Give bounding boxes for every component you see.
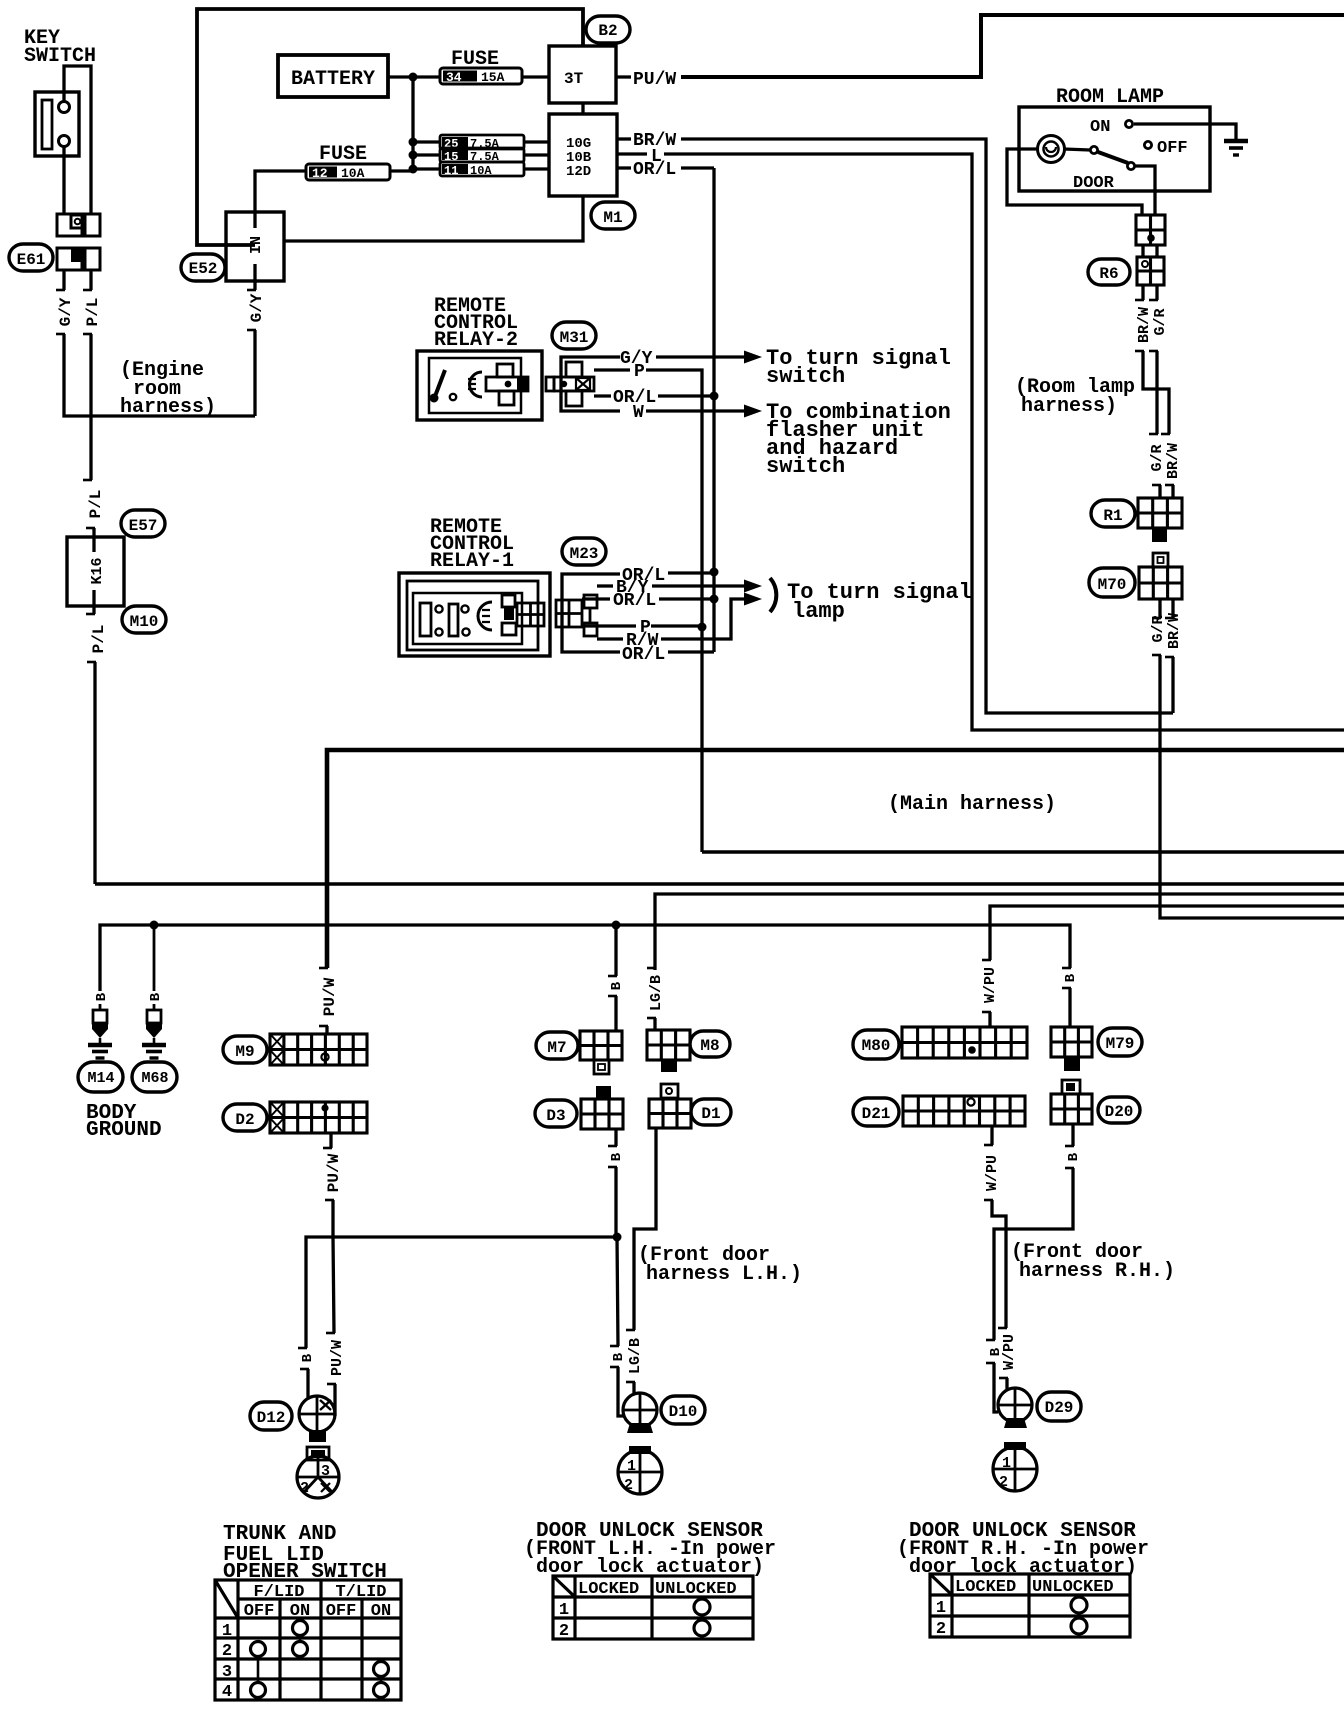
svg-text:1: 1 (1002, 1455, 1011, 1472)
svg-text:G/Y: G/Y (248, 293, 266, 322)
svg-text:P/L: P/L (84, 298, 102, 327)
wire PU/W into D12 (333, 1384, 336, 1416)
svg-text:R6: R6 (1099, 265, 1118, 283)
trunk and fuel lid opener switch symbol (297, 1456, 339, 1498)
svg-text:15A: 15A (481, 70, 505, 85)
wire key switch bottom to connector (62, 147, 65, 214)
wire bulb left loop (1007, 149, 1142, 215)
svg-text:harness R.H.): harness R.H.) (1019, 1260, 1175, 1283)
svg-text:D21: D21 (862, 1105, 891, 1123)
svg-text:2: 2 (999, 1474, 1008, 1491)
relay-1 contact points (435, 605, 442, 612)
key switch body (35, 92, 79, 156)
wire LG/B below D1 (634, 1128, 656, 1330)
svg-text:2: 2 (624, 1477, 633, 1494)
connector grid R1 connector (1138, 498, 1182, 528)
wire PU/W to trunk connector (333, 1200, 334, 1333)
wire BR/W into R1 (1171, 485, 1174, 498)
connector grid D2 connector (270, 1102, 367, 1133)
wire P wire down (646, 370, 702, 852)
wire G/R into R1 (1158, 485, 1161, 498)
wire fuse row 2 left (413, 153, 440, 156)
wire 3T to fuse block (581, 103, 584, 114)
wire tick (608, 1145, 617, 1148)
relay-1 body (399, 573, 550, 656)
svg-text:M7: M7 (547, 1039, 566, 1057)
wire tick (56, 333, 65, 336)
junction OR/L junction 1 (710, 568, 719, 577)
svg-text:P/L: P/L (87, 490, 105, 519)
connector grid D1 connector (649, 1099, 691, 1128)
svg-text:B: B (1063, 973, 1079, 982)
wire tick (982, 959, 991, 962)
connector label M10 (122, 606, 166, 633)
junction ground junction M68 (150, 921, 159, 930)
door unlock sensor LH contact row1 (694, 1599, 710, 1615)
wire ON to ground (1134, 124, 1236, 140)
wire B/Y to arrow (652, 584, 744, 587)
svg-text:RELAY-1: RELAY-1 (430, 550, 514, 573)
wire G/Y down to engine-room joint (64, 334, 255, 416)
wire key switch top loop (64, 66, 91, 214)
svg-text:OR/L: OR/L (633, 160, 676, 180)
wire connector to R6 right (1155, 245, 1158, 257)
wire L tick (617, 152, 647, 155)
switch pivot (1090, 146, 1097, 153)
connector pair E61 (57, 248, 100, 270)
wire tick (86, 527, 95, 530)
OFF contact (1144, 141, 1151, 148)
round connector D10 (623, 1393, 657, 1427)
svg-text:BATTERY: BATTERY (291, 68, 375, 91)
D2 hatched cell (270, 1102, 284, 1133)
connector label E52 (181, 254, 225, 281)
connector label M8 (690, 1031, 730, 1057)
svg-text:UNLOCKED: UNLOCKED (1032, 1578, 1114, 1597)
junction P junction (698, 623, 707, 632)
svg-text:1: 1 (627, 1458, 636, 1475)
wire main harness PU/W bus (327, 750, 1344, 968)
wire tick (298, 1347, 307, 1350)
svg-text:B: B (94, 992, 110, 1001)
wire B into D29 (994, 1363, 998, 1412)
wire W/PU to M80 (988, 1012, 991, 1027)
connector grid M80 connector (902, 1027, 1027, 1058)
wire tick (626, 1329, 635, 1332)
svg-text:T/LID: T/LID (335, 1583, 386, 1602)
wire link rows2-4 (257, 1656, 260, 1683)
bulb filament (1046, 147, 1056, 152)
wire B/Y from M23 (597, 584, 613, 587)
connector label M80 (853, 1030, 899, 1059)
wire fuse block to IN (284, 196, 583, 241)
door lock actuator RH cap (1004, 1442, 1026, 1450)
wire OR/L row3 from M23 (582, 597, 610, 600)
door lock actuator LH cap (629, 1446, 651, 1454)
wire IN top stub (253, 212, 256, 228)
svg-text:M79: M79 (1106, 1035, 1135, 1053)
svg-text:BR/W: BR/W (1165, 443, 1182, 479)
wire G/R below M70 (1158, 599, 1161, 618)
svg-text:R1: R1 (1103, 507, 1122, 525)
svg-text:DOOR: DOOR (1073, 174, 1115, 193)
wire W/PU into D29 (1005, 1378, 1008, 1389)
wire B down to junction (614, 1167, 617, 1237)
junction battery junction (409, 73, 418, 82)
switch lever (1098, 152, 1128, 163)
connector grid D21 connector (903, 1096, 1025, 1126)
connector pair at key switch (57, 214, 100, 236)
relay-2 body (417, 351, 542, 420)
wire tick (608, 995, 617, 998)
wire tick (647, 967, 656, 970)
connector label M9 (223, 1036, 267, 1063)
wire fuse12 to junction (390, 169, 413, 172)
door lock actuator RH motor (993, 1447, 1037, 1491)
wire P/L to main harness (93, 662, 96, 884)
svg-text:M10: M10 (130, 613, 159, 631)
wire tick (325, 1199, 334, 1202)
wire tick (1062, 967, 1071, 970)
connector grid M8 connector (647, 1030, 690, 1060)
svg-text:M70: M70 (1098, 576, 1127, 594)
svg-text:10A: 10A (341, 166, 365, 181)
wire tick (1161, 433, 1170, 436)
junction fuse junction 2 (409, 151, 418, 160)
wire PU/W into M9 (325, 1026, 328, 1034)
wire G/R below R6 a (1155, 285, 1158, 300)
wire fuse row 3 left (413, 167, 440, 170)
svg-text:D1: D1 (701, 1105, 720, 1123)
wire tick (647, 1017, 656, 1020)
wire tick (327, 1383, 336, 1386)
svg-text:F/LID: F/LID (253, 1583, 304, 1602)
svg-text:D20: D20 (1105, 1103, 1134, 1121)
connector label D10 (661, 1396, 705, 1424)
fuse 12 10A (306, 164, 390, 180)
wire K16 bottom stub (92, 590, 95, 614)
svg-text:B: B (609, 1152, 625, 1161)
wire G/R long down (1160, 655, 1344, 918)
ground symbol (1224, 141, 1248, 155)
connector grid D20 connector (1051, 1094, 1092, 1124)
svg-text:34: 34 (446, 70, 462, 85)
svg-text:1: 1 (936, 1599, 946, 1618)
wire tick (984, 1144, 993, 1147)
wire B to D10 (617, 1237, 618, 1346)
arrow to turn signal lamp 1 (744, 580, 762, 593)
svg-text:M68: M68 (141, 1070, 168, 1087)
wire fuse feed vertical (411, 77, 414, 170)
wire tick (1165, 656, 1174, 659)
relay-2 terminal cross (497, 364, 513, 377)
svg-text:M80: M80 (862, 1037, 891, 1055)
svg-text:10A: 10A (470, 164, 492, 178)
connector grid relay-1 right (517, 603, 544, 626)
wire tick (326, 1332, 335, 1335)
wire P from M31 (594, 368, 630, 371)
wire B to M7 b (614, 996, 617, 1031)
svg-text:LG/B: LG/B (627, 1338, 644, 1374)
svg-text:OFF: OFF (1157, 139, 1188, 158)
svg-text:switch: switch (766, 364, 845, 389)
svg-text:B: B (148, 992, 164, 1001)
wire BR/W tick (617, 137, 631, 140)
connector grid M70 connector (1139, 567, 1182, 599)
wire tick (1165, 617, 1174, 620)
svg-text:B: B (988, 1347, 1004, 1356)
wire battery to fuse (388, 75, 440, 78)
wire tick (1149, 433, 1158, 436)
wire M68 drop (153, 925, 156, 991)
connector label D1 (691, 1099, 731, 1125)
svg-text:B2: B2 (598, 22, 617, 40)
wire fuse row 1 left (413, 140, 440, 143)
wire M23 bracket (562, 574, 620, 652)
svg-text:IN: IN (248, 236, 265, 254)
svg-text:ON: ON (290, 1602, 310, 1621)
M31 cross (566, 362, 582, 377)
switch contact row4 ON-T (374, 1683, 389, 1698)
wire OR/L row3 join (659, 597, 714, 600)
switch contact row4 OFF-F (251, 1683, 266, 1698)
relay-2 coil (469, 372, 482, 397)
svg-text:G/R: G/R (1150, 615, 1167, 642)
wire top bus (197, 9, 583, 245)
ignition switch IN box (226, 212, 284, 281)
connector label D21 (853, 1098, 899, 1126)
wire tick (984, 1199, 993, 1202)
wire P/L down (89, 334, 92, 480)
connector grid R6 connector (1137, 257, 1164, 285)
wire G/Y to arrow (656, 355, 744, 358)
wire connector to R6 left (1141, 245, 1144, 257)
svg-text:OFF: OFF (326, 1602, 357, 1621)
svg-text:11: 11 (444, 164, 458, 178)
svg-text:3T: 3T (564, 70, 584, 88)
wire B to M7 (614, 925, 617, 976)
wire P/L from E61 (89, 270, 92, 290)
svg-text:M23: M23 (570, 545, 599, 563)
connector label D3 (535, 1100, 577, 1127)
battery (278, 55, 388, 97)
D12 X mark (320, 1400, 331, 1410)
door unlock sensor RH contact row1 (1071, 1597, 1087, 1613)
D20 lock tab (1062, 1080, 1080, 1094)
wire tick (986, 1362, 995, 1365)
wire IN bottom stub (253, 264, 256, 290)
wire M68 wire (153, 1004, 156, 1010)
svg-text:PU/W: PU/W (633, 70, 676, 90)
D1 lock tab (661, 1084, 678, 1098)
svg-text:harness): harness) (120, 396, 216, 419)
D3 lock tab (596, 1086, 611, 1099)
wire G/Y from IN down (253, 330, 256, 416)
wire G/R straight (1155, 351, 1158, 434)
room lamp box (1019, 107, 1210, 191)
round connector D29 (998, 1388, 1032, 1422)
wire B to M79 (1068, 988, 1071, 1027)
wire tick (1152, 484, 1161, 487)
svg-text:RELAY-2: RELAY-2 (434, 329, 518, 352)
svg-text:2: 2 (559, 1622, 569, 1641)
wire tick (83, 333, 92, 336)
connector label M1 (591, 202, 635, 229)
fuse row 15 7.5A (440, 148, 524, 162)
wire tick (982, 1011, 991, 1014)
wire M14 wire (99, 1004, 102, 1010)
wire OR/L join (658, 394, 714, 397)
wire tick (1135, 299, 1144, 302)
fuse block box M1 (549, 114, 617, 196)
fuse 34 15A (440, 68, 522, 84)
wire B jog to D29 (994, 1168, 1073, 1340)
ON contact (1125, 120, 1132, 127)
D12 base (309, 1430, 326, 1442)
junction OR/L junction at relay-2 (710, 392, 719, 401)
connector grid M79 connector (1051, 1027, 1092, 1057)
wire B into D12 (306, 1369, 309, 1398)
wire tick (300, 1368, 309, 1371)
svg-text:3: 3 (321, 1463, 330, 1480)
trunk switch table (215, 1580, 401, 1700)
relay-1 coil windings (420, 603, 431, 636)
wire OR/L row6 join (668, 650, 714, 653)
svg-text:PU/W: PU/W (321, 977, 339, 1016)
wire tick (87, 661, 96, 664)
wire B into D10 (618, 1367, 623, 1416)
wire BR/W long (681, 139, 1173, 713)
wire bulb to pivot (1064, 149, 1090, 150)
svg-text:12D: 12D (566, 164, 591, 180)
wire OR/L from fuse (681, 166, 714, 169)
wire tick (1149, 299, 1158, 302)
svg-text:2: 2 (222, 1642, 232, 1661)
wire W to arrow (646, 409, 744, 412)
svg-text:P/L: P/L (90, 625, 108, 654)
wire LG/B bus (655, 894, 1344, 968)
svg-text:W: W (633, 403, 644, 423)
wire link rows3-4 (380, 1676, 383, 1683)
svg-text:switch: switch (766, 454, 845, 479)
wire tick (1135, 350, 1144, 353)
door unlock sensor LH table (553, 1576, 753, 1639)
svg-text:P: P (634, 362, 645, 382)
wire tick (608, 1166, 617, 1169)
D10 base (627, 1423, 653, 1433)
svg-text:K16: K16 (89, 557, 106, 584)
connector label M14 (78, 1062, 123, 1092)
svg-text:TRUNK AND: TRUNK AND (223, 1523, 336, 1546)
connector label R6 (1088, 259, 1130, 285)
wire L long (664, 154, 1344, 730)
wire tick (247, 329, 256, 332)
M70 lock tab (1153, 553, 1168, 567)
connector label M70 (1089, 568, 1135, 597)
wire BR/W jog (1143, 351, 1169, 434)
M8 lock tab (661, 1060, 677, 1072)
wire W/PU below D21 (990, 1126, 993, 1145)
wire B below D20 (1071, 1124, 1074, 1146)
junction B junction front door (613, 1233, 622, 1242)
svg-text:BR/W: BR/W (1136, 307, 1153, 343)
door unlock sensor LH contact row2 (694, 1620, 710, 1636)
wire P from M23 (582, 624, 636, 627)
svg-text:ON: ON (1090, 118, 1110, 137)
wire tick (1152, 654, 1161, 657)
switch contact row1 ON-F (293, 1621, 308, 1636)
switch contact row3 ON-T (374, 1662, 389, 1677)
svg-text:ON: ON (371, 1602, 391, 1621)
wire tick (986, 1339, 995, 1342)
wire tick (56, 289, 65, 292)
wire tick (610, 1366, 619, 1369)
svg-text:B: B (611, 1352, 627, 1361)
wire tick (1065, 1167, 1074, 1170)
connector grid room lamp connector (1136, 215, 1165, 245)
wire tick (610, 1345, 619, 1348)
relay-2 contact arm (434, 370, 445, 399)
svg-text:2: 2 (300, 1480, 309, 1497)
room lamp bulb (1038, 136, 1065, 163)
svg-text:PU/W: PU/W (325, 1153, 343, 1192)
wire P bus right (702, 850, 1344, 854)
wire BR/W below M70 (1171, 599, 1174, 618)
wire PU/W tick (616, 75, 631, 78)
svg-text:D29: D29 (1045, 1399, 1074, 1417)
wire tick (1165, 484, 1174, 487)
key switch contact bottom (59, 136, 70, 147)
connector label D20 (1098, 1097, 1140, 1123)
wire PU/W to right edge (681, 15, 1344, 77)
svg-text:GROUND: GROUND (86, 1119, 162, 1142)
wire R/W to arrow (661, 599, 744, 639)
junction OR/L junction 2 (710, 595, 719, 604)
svg-text:(Main harness): (Main harness) (888, 793, 1056, 816)
wire OR/L row1 join (668, 571, 714, 574)
svg-text:M1: M1 (603, 209, 622, 227)
junction fuse junction 1 (409, 138, 418, 147)
arrow to turn signal lamp 2 (744, 593, 762, 606)
fuse row 25 7.5A (440, 135, 524, 149)
wire W/PU jog to D29 (992, 1200, 1006, 1328)
wire LG/B to M8 (653, 968, 656, 970)
wire fuse row 1 right (524, 140, 549, 143)
door lock actuator LH motor (618, 1450, 662, 1494)
junction ground junction M7 (612, 921, 621, 930)
round connector D12 (299, 1396, 335, 1432)
svg-text:LOCKED: LOCKED (578, 1580, 639, 1599)
wire R/W from M23 (597, 637, 623, 640)
wire tick (999, 1377, 1008, 1380)
svg-text:W/PU: W/PU (982, 967, 999, 1003)
connector label D12 (250, 1402, 292, 1430)
svg-text:W/PU: W/PU (984, 1155, 1001, 1191)
connector label M68 (132, 1062, 177, 1092)
wire tick (319, 967, 328, 970)
arrow to combination flasher (744, 405, 762, 418)
svg-text:E52: E52 (189, 260, 218, 278)
svg-text:2: 2 (936, 1620, 946, 1639)
svg-text:D3: D3 (546, 1107, 565, 1125)
svg-text:E61: E61 (17, 251, 46, 269)
svg-text:B: B (1066, 1152, 1082, 1161)
svg-text:G/R: G/R (1152, 308, 1169, 335)
wire fuse row 3 right (524, 167, 549, 170)
wire tick (1065, 1145, 1074, 1148)
wire M31 bracket G/Y row (561, 357, 620, 411)
wire tick (608, 975, 617, 978)
